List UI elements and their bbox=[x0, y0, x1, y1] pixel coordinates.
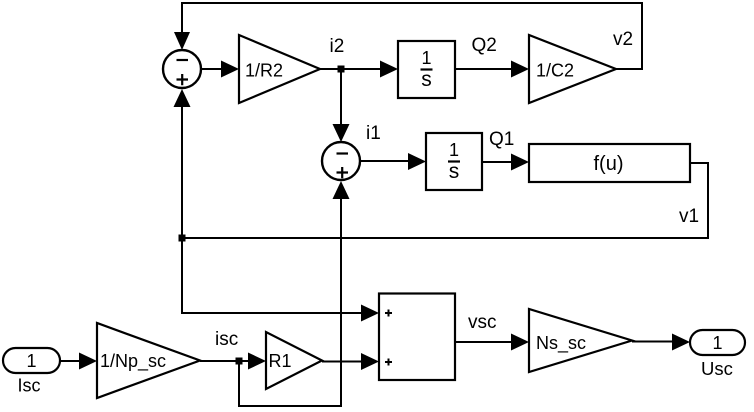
wire f(u) output v1 feedback bbox=[182, 163, 708, 238]
sum S2 bbox=[322, 142, 360, 180]
gain U_Np (1/Np_sc) bbox=[97, 323, 200, 398]
svg-text:1/R2: 1/R2 bbox=[245, 61, 283, 81]
svg-text:s: s bbox=[421, 68, 432, 91]
svg-text:Ns_sc: Ns_sc bbox=[536, 333, 586, 354]
node isc junction bbox=[236, 358, 243, 365]
input port Isc bbox=[3, 348, 60, 373]
svg-text:Q2: Q2 bbox=[472, 35, 497, 56]
output port Usc bbox=[690, 330, 745, 355]
wire Integrator1 to 1/C2 bbox=[455, 61, 529, 78]
wire 1/Np_sc to R1 bbox=[200, 353, 266, 370]
wire Ns_sc to Usc bbox=[632, 334, 690, 351]
wire isc branch down to Sum2 plus input bbox=[239, 181, 350, 406]
svg-text:1: 1 bbox=[712, 333, 722, 353]
integrator U2 (1/s) bbox=[426, 133, 482, 190]
node v1 junction bbox=[179, 235, 186, 242]
svg-text:R1: R1 bbox=[268, 351, 291, 371]
wire Sum1 to 1/R2 bbox=[201, 61, 239, 78]
svg-text:vsc: vsc bbox=[468, 312, 497, 333]
sum S1 bbox=[163, 50, 201, 88]
gain U_1R2 (1/R2) bbox=[239, 35, 320, 103]
function block Fcn f(u) bbox=[529, 144, 690, 182]
integrator U1 (1/s) bbox=[398, 41, 455, 98]
svg-text:v2: v2 bbox=[613, 29, 633, 50]
svg-text:i2: i2 bbox=[330, 36, 345, 57]
wire v1 up to Sum1 plus input bbox=[174, 89, 191, 238]
wire v1 to Add block input 1 bbox=[182, 238, 379, 322]
svg-text:s: s bbox=[449, 160, 460, 183]
gain U_1C2 (1/C2) bbox=[529, 35, 616, 103]
svg-text:1: 1 bbox=[421, 48, 431, 68]
gain U_Ns (Ns_sc) bbox=[529, 309, 632, 372]
svg-text:1/Np_sc: 1/Np_sc bbox=[100, 351, 166, 372]
svg-text:i1: i1 bbox=[366, 123, 381, 144]
svg-text:f(u): f(u) bbox=[594, 153, 624, 175]
wire 1/R2 to Integrator1 bbox=[320, 61, 398, 78]
wire Integrator2 to f(u) bbox=[482, 154, 529, 171]
wire Isc to 1/Np_sc bbox=[60, 353, 97, 370]
svg-text:Usc: Usc bbox=[701, 358, 733, 379]
svg-text:Isc: Isc bbox=[18, 376, 41, 396]
svg-text:1: 1 bbox=[26, 351, 36, 371]
wire R1 to Add block input 2 bbox=[322, 353, 379, 370]
wire i2 branch down to Sum2 top input bbox=[333, 69, 350, 142]
node i2 junction bbox=[338, 66, 345, 73]
svg-text:1: 1 bbox=[449, 140, 459, 160]
svg-text:1/C2: 1/C2 bbox=[536, 61, 574, 81]
wire Sum2 to Integrator2 bbox=[360, 153, 426, 170]
gain U_R1 (R1) bbox=[266, 332, 322, 389]
wire Add to Ns_sc bbox=[455, 334, 529, 351]
svg-text:Q1: Q1 bbox=[489, 129, 514, 150]
svg-text:isc: isc bbox=[215, 329, 238, 350]
wire v2 feedback (1/C2 output to Sum1 top input) bbox=[174, 3, 642, 69]
svg-text:v1: v1 bbox=[679, 206, 699, 227]
sum block Add bbox=[379, 294, 455, 381]
